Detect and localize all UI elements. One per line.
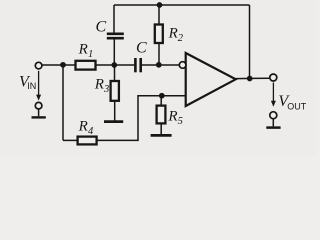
resistor R5: [157, 106, 166, 124]
ground bar under R3: [104, 120, 123, 123]
svg-text:3: 3: [103, 84, 109, 95]
svg-text:4: 4: [88, 126, 94, 137]
op-amp U1 triangle: [186, 53, 236, 106]
wire: R5 lower lead: [160, 123, 162, 134]
ground bar output: [266, 126, 280, 129]
node: junction dot top of R2: [157, 2, 163, 8]
wire: C branch vertical upper lead: [113, 5, 115, 33]
svg-text:C: C: [96, 19, 107, 36]
svg-text:2: 2: [178, 33, 184, 44]
wire: series C to inverting input: [142, 64, 180, 66]
svg-text:C: C: [136, 40, 147, 57]
wire: R2 lower lead to inverting node: [158, 43, 160, 65]
terminal: input open circle: [35, 62, 42, 69]
wire: R2 upper lead: [158, 5, 160, 25]
terminal: output ground-side circle: [270, 112, 277, 119]
svg-text:R: R: [168, 26, 178, 42]
wire: C lower lead down to mid node: [113, 39, 115, 65]
wire: op-amp output: [236, 77, 270, 79]
svg-text:R: R: [78, 119, 88, 135]
ground bar input: [32, 116, 46, 118]
resistor R2: [155, 25, 163, 44]
wire: R5 upper lead: [160, 96, 162, 106]
svg-text:5: 5: [178, 116, 183, 127]
wire: bottom rail left segment: [63, 139, 78, 141]
node: junction dot noninverting rail: [159, 93, 165, 99]
node: junction dot input branch: [60, 62, 66, 68]
svg-text:R: R: [78, 42, 88, 58]
node: junction dot mid node: [111, 62, 117, 68]
node: junction dot inverting node: [156, 62, 162, 68]
svg-text:OUT: OUT: [287, 101, 307, 111]
svg-text:R: R: [94, 77, 104, 93]
wire: mid node down to R3: [114, 65, 116, 81]
paper background: [0, 0, 316, 156]
wire: input ground lead: [38, 109, 40, 116]
resistor R3: [111, 81, 119, 101]
input arrow: [38, 71, 40, 96]
wire: top feedback rail from C top to right vertical: [114, 4, 250, 6]
resistor R1: [76, 61, 96, 70]
svg-text:1: 1: [88, 49, 93, 60]
terminal: output open circle: [270, 74, 277, 81]
op-amp inverting input bubble: [179, 62, 186, 69]
output arrow: [272, 83, 274, 102]
node: junction dot output feedback: [247, 76, 253, 82]
wire: input to R1: [42, 64, 76, 66]
wire: right vertical feedback down to output node: [249, 5, 251, 79]
resistor R4: [78, 137, 97, 145]
wire: R3 lower lead: [114, 101, 116, 121]
capacitor C (vertical, feedback): [107, 32, 124, 35]
ground bar under R5: [151, 134, 172, 137]
wire: output ground lead: [272, 119, 274, 127]
terminal: input ground-side circle: [35, 102, 42, 109]
svg-text:R: R: [167, 109, 177, 125]
wire: bottom rail right segment and riser to noninverting rail: [97, 96, 186, 141]
wire: input branch vertical down to bottom rail: [62, 65, 64, 141]
capacitor C (series, horizontal): [134, 58, 137, 72]
svg-text:IN: IN: [27, 81, 36, 91]
wire: R1 to series C: [96, 64, 135, 66]
